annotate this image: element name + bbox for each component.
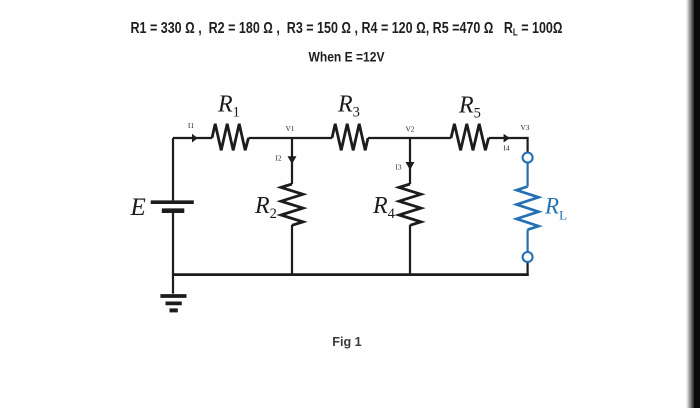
svg-text:R1 = 330 Ω , R2 = 180 Ω , R3: R1 = 330 Ω , R2 = 180 Ω , R3 = 150 Ω , R… — [131, 20, 563, 39]
svg-text:V1: V1 — [285, 124, 294, 133]
svg-text:E: E — [130, 194, 146, 221]
svg-text:When E =12V: When E =12V — [309, 50, 385, 66]
svg-text:V3: V3 — [520, 123, 529, 132]
svg-text:I4: I4 — [503, 144, 509, 153]
svg-text:R1: R1 — [217, 92, 240, 121]
svg-text:R4: R4 — [372, 193, 396, 222]
svg-text:R2: R2 — [254, 193, 277, 222]
svg-text:I3: I3 — [395, 163, 401, 172]
svg-text:R3: R3 — [337, 92, 360, 121]
svg-text:RL: RL — [544, 194, 567, 223]
svg-text:I2: I2 — [275, 154, 281, 163]
svg-text:R5: R5 — [458, 93, 481, 122]
svg-text:Fig 1: Fig 1 — [332, 335, 361, 349]
svg-text:I1: I1 — [188, 121, 194, 130]
svg-text:V2: V2 — [405, 125, 414, 134]
